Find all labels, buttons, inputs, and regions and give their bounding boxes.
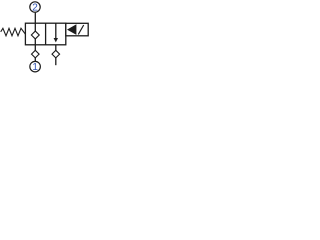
svg-text:2: 2	[32, 3, 38, 14]
port 2 circle	[30, 2, 40, 12]
wire poppet to bottom edge	[34, 39, 36, 45]
spring	[1, 28, 26, 36]
valve body envelope	[25, 23, 65, 45]
right position: open flow line	[55, 23, 57, 39]
wire port 2 to valve	[34, 13, 36, 24]
svg-text:1: 1	[32, 62, 38, 73]
solenoid slash	[78, 25, 83, 34]
left position: wire to poppet	[34, 23, 36, 31]
solenoid triangle	[67, 24, 76, 35]
solenoid box	[66, 23, 88, 36]
bottom-right seat diamond	[52, 50, 60, 58]
arrowhead	[54, 38, 58, 42]
poppet diamond	[31, 31, 39, 39]
bottom-right tail wire	[55, 58, 57, 66]
bottom-left seat diamond	[32, 50, 40, 58]
position divider	[45, 23, 47, 45]
bottom-left stub	[34, 45, 36, 51]
bottom-right stub	[55, 45, 57, 51]
wire diamond to port 1	[34, 58, 36, 62]
background	[0, 0, 92, 79]
port 1 circle	[30, 61, 41, 72]
